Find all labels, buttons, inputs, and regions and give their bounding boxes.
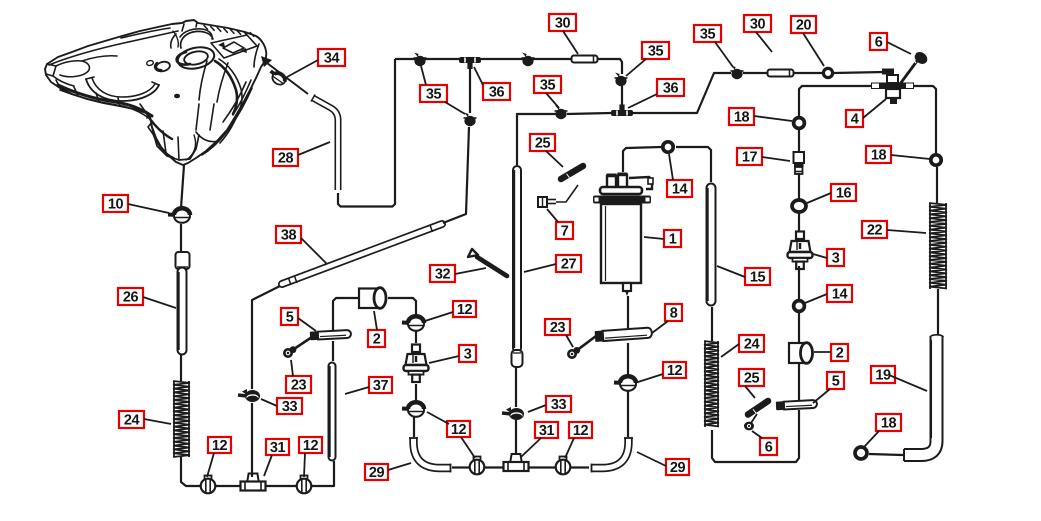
svg-text:31: 31 [539, 423, 555, 439]
wire spoon 5 to tube 37 [332, 341, 334, 361]
clamp 35 top-right [731, 66, 744, 80]
label 10 [103, 195, 128, 212]
label 38 [276, 226, 301, 243]
label 6 right [760, 438, 777, 455]
label 12 bottom-mid-right [569, 422, 592, 439]
bushing 2 left [359, 288, 386, 309]
svg-text:33: 33 [551, 397, 567, 413]
spring bar 25 left [561, 166, 583, 179]
label 29 right [666, 459, 689, 476]
svg-text:28: 28 [278, 150, 294, 166]
svg-text:5: 5 [286, 309, 294, 325]
wire tube 27 to fitting 33 [515, 367, 517, 407]
label 3 left [459, 345, 476, 362]
svg-text:12: 12 [667, 363, 683, 379]
svg-text:17: 17 [742, 149, 758, 165]
label 14 right [827, 285, 852, 302]
label 37 [369, 377, 392, 394]
label 25 right [739, 369, 764, 386]
bolt 23 mid [567, 336, 596, 359]
svg-text:24: 24 [744, 336, 760, 352]
screw 6 top-right [900, 50, 930, 84]
wire filter up to clamp 12 [415, 331, 417, 343]
svg-text:25: 25 [535, 135, 551, 151]
svg-text:12: 12 [303, 438, 319, 454]
svg-text:23: 23 [550, 320, 566, 336]
tee 31 mid [504, 454, 529, 471]
fitting 33 left [238, 389, 260, 402]
hose 29 right [592, 438, 634, 472]
svg-text:18: 18 [881, 415, 897, 431]
label 33 left [277, 398, 302, 415]
svg-text:36: 36 [663, 80, 679, 96]
tube 19 [904, 335, 944, 461]
svg-text:25: 25 [744, 370, 760, 386]
svg-text:23: 23 [291, 377, 307, 393]
wire spoon 5 to corner [712, 410, 799, 462]
label 31 left [266, 439, 289, 456]
check valve 4 [871, 69, 914, 105]
tube 27 [515, 170, 517, 348]
label 32 [430, 265, 455, 282]
svg-text:24: 24 [124, 412, 140, 428]
screw 6 right [744, 414, 757, 430]
wire spring 24r to tube 15 [711, 307, 713, 341]
spring 24 left [173, 381, 190, 457]
ring 18 right [931, 155, 941, 165]
label 2 right [831, 344, 848, 361]
label 36 top-left [483, 83, 510, 100]
label 30 top [549, 14, 576, 31]
wire pump to part 8 [627, 296, 629, 328]
svg-text:6: 6 [765, 439, 773, 455]
clamp 35 top-left [414, 53, 427, 67]
svg-text:8: 8 [670, 305, 678, 321]
hose 28 [311, 95, 338, 191]
svg-text:12: 12 [451, 422, 467, 438]
bushing 2 right [789, 343, 813, 364]
bolt 7 [538, 185, 578, 207]
label 35 for drop [642, 42, 669, 59]
svg-text:35: 35 [648, 43, 664, 59]
spring 24 right [704, 341, 719, 427]
label 12 bottom-left-2 [299, 437, 322, 454]
wire hose29L up to clamp [413, 417, 415, 437]
tube 15 [708, 188, 711, 301]
wire hose 38 to clamp column [443, 127, 469, 223]
clamp 35 mid-left [464, 113, 477, 127]
svg-text:22: 22 [867, 222, 883, 238]
tee 31 left [241, 474, 266, 491]
filter 3 right [788, 232, 813, 270]
svg-text:14: 14 [832, 286, 848, 302]
svg-text:20: 20 [796, 17, 812, 33]
clamp 12 filter-left bottom [402, 402, 424, 417]
svg-text:18: 18 [871, 147, 887, 163]
label 18 right [866, 146, 891, 163]
spring 22 [929, 203, 947, 289]
tube 37 [330, 366, 332, 457]
label 25 left [530, 134, 555, 151]
hose 29 left [409, 438, 451, 472]
svg-text:37: 37 [373, 378, 389, 394]
wire tube 19 to ring 18 [869, 454, 903, 455]
label 12 bottom-mid-left [447, 421, 470, 438]
label 7 [556, 222, 573, 239]
spring bar 25 right [748, 401, 768, 415]
label 31 mid [535, 422, 558, 439]
wire 18 to 17 [798, 130, 800, 152]
fuel pump 1 [593, 173, 653, 297]
wire spring 24 to bottom-left run [181, 457, 334, 486]
wire valve to right column [914, 86, 936, 153]
wire tee to clamps bottom [452, 466, 470, 468]
clamp 10 [168, 208, 190, 223]
svg-text:36: 36 [489, 84, 505, 100]
label 33 mid [546, 396, 571, 413]
label 5 left [281, 308, 298, 325]
label 22 [862, 221, 887, 238]
label 35 top-left [420, 85, 447, 102]
label 34 [318, 49, 345, 66]
label 4 [846, 110, 863, 127]
clamp 35 on drop [615, 73, 628, 87]
wire tank to clamp 34 [267, 63, 308, 94]
svg-text:14: 14 [672, 181, 688, 197]
label 1 [664, 230, 681, 247]
ring 18 bottom-right [855, 447, 867, 459]
connector 30 top [572, 56, 598, 63]
svg-text:6: 6 [875, 34, 883, 50]
clamp 8 [595, 327, 653, 342]
svg-text:3: 3 [832, 250, 840, 266]
connector to top-right [743, 72, 768, 74]
wire clamp up corner to cyl 2 [388, 298, 416, 317]
label 20 [791, 16, 816, 33]
connector 30 right [768, 70, 794, 77]
svg-text:19: 19 [875, 367, 891, 383]
wire mid line [517, 114, 556, 165]
svg-text:16: 16 [836, 185, 852, 201]
wire top line [395, 58, 459, 60]
svg-text:12: 12 [573, 423, 589, 439]
filter 3 left [404, 345, 429, 383]
wire cyl 2 to spoon 5 [798, 364, 800, 400]
label 15 [745, 268, 770, 285]
clamp 35 top-mid [522, 53, 535, 67]
wire part8 to clamp 12 [627, 343, 629, 377]
pin 32 [468, 249, 507, 276]
svg-text:31: 31 [270, 440, 286, 456]
wire tank outlet to clamp 10 [181, 165, 184, 208]
wire tube 26 to spring 24 [180, 354, 182, 381]
bolt 23 left [283, 337, 312, 358]
svg-text:1: 1 [669, 231, 677, 247]
label 3 right [827, 249, 844, 266]
clamp 12 bottom-mid-left [470, 457, 485, 475]
svg-text:38: 38 [281, 227, 297, 243]
fitting 17 [794, 152, 805, 174]
svg-text:2: 2 [373, 331, 381, 347]
svg-text:29: 29 [369, 465, 385, 481]
svg-text:7: 7 [561, 223, 569, 239]
svg-text:18: 18 [734, 109, 750, 125]
label 18 bottom-right [876, 414, 901, 431]
clamp 34 [267, 68, 288, 87]
fitting 33 mid [502, 407, 524, 420]
tee 36 mid [611, 105, 633, 117]
label 14 left [667, 180, 692, 197]
svg-text:4: 4 [851, 111, 859, 127]
wire valve left wing to x799 [799, 86, 871, 116]
svg-text:35: 35 [426, 86, 442, 102]
wire tee 31 up to hose 38 [251, 403, 253, 477]
label 28 [273, 149, 298, 166]
wire ring 14 to cyl 2 [798, 312, 800, 342]
label 5 right [827, 372, 844, 389]
clamp 12 right-mid [614, 376, 636, 391]
label 12 filter-left [453, 301, 476, 318]
label 2 left [368, 330, 385, 347]
wire ring 14 left to pump [623, 147, 661, 172]
label 8 [665, 304, 682, 321]
label 24 left [119, 411, 144, 428]
label 26 [118, 288, 143, 305]
label 24 right [739, 335, 764, 352]
wire clamp 10 to tube 26 [180, 224, 182, 252]
wire clamp to tee 36a [469, 66, 471, 113]
wire 17 to 16 [798, 173, 800, 200]
label 36 mid [657, 79, 684, 96]
clamp 5 right [776, 400, 817, 411]
wire 16 to filter [798, 212, 800, 231]
fuel tank [45, 20, 272, 165]
wire ring to spring 22 [936, 167, 938, 203]
clamp 35 mid [555, 106, 568, 120]
svg-text:27: 27 [561, 256, 577, 272]
label 17 [737, 148, 762, 165]
clamp 5 left [310, 330, 351, 341]
label 30 right [744, 15, 771, 32]
svg-text:10: 10 [108, 196, 124, 212]
svg-text:15: 15 [750, 269, 766, 285]
label 16 [831, 184, 856, 201]
tube 26 [176, 252, 190, 350]
wire filter to ring 14 [798, 266, 800, 300]
label 23 mid [545, 319, 570, 336]
svg-text:12: 12 [457, 302, 473, 318]
label 19 [871, 366, 895, 383]
hose 38 [282, 224, 442, 285]
svg-text:35: 35 [700, 26, 716, 42]
svg-text:29: 29 [670, 460, 686, 476]
ring 14 right [794, 301, 805, 312]
label 12 bottom-left [208, 437, 231, 454]
wire fitting 33 to tee 31 [515, 420, 517, 453]
wire drop to tee [621, 86, 623, 107]
svg-text:33: 33 [282, 399, 298, 415]
label 18 mid [729, 108, 754, 125]
wire clamp to filter 3 [415, 384, 417, 403]
wire hose 28 to corner x395 [338, 59, 395, 207]
wire clamp to hose 29R [627, 391, 629, 437]
label 6 top-right [870, 33, 887, 50]
svg-text:34: 34 [324, 50, 340, 66]
label 12 right-mid [663, 362, 686, 379]
svg-text:26: 26 [123, 289, 139, 305]
svg-text:30: 30 [555, 15, 571, 31]
grommet 20 [823, 68, 832, 77]
label 23 left [286, 376, 311, 393]
label 29 left [365, 464, 388, 481]
svg-text:35: 35 [540, 77, 556, 93]
clamp 12 filter-left top [402, 316, 424, 331]
clamp 12 bottom-left [201, 476, 216, 494]
clamp 12 bottom-left-2 [297, 476, 312, 494]
clamp 12 bottom-mid-right [556, 457, 571, 475]
ring 16 [792, 200, 806, 212]
svg-text:5: 5 [832, 373, 840, 389]
svg-text:30: 30 [750, 16, 766, 32]
wire cyl2 left to spoon 5 [333, 298, 359, 330]
label 27 [556, 255, 581, 272]
label 35 top-right [694, 25, 721, 42]
svg-text:2: 2 [836, 345, 844, 361]
label 35 top-mid [534, 76, 561, 93]
wire tube 15 up and left to ring 14 [676, 147, 711, 182]
svg-text:3: 3 [464, 346, 472, 362]
wire spring 22 to tube 19 [937, 289, 939, 335]
svg-text:32: 32 [435, 266, 451, 282]
tee 36 top-left [459, 57, 481, 69]
ring 18 mid [794, 118, 805, 129]
ring 14 left [663, 142, 673, 152]
svg-text:12: 12 [212, 438, 228, 454]
